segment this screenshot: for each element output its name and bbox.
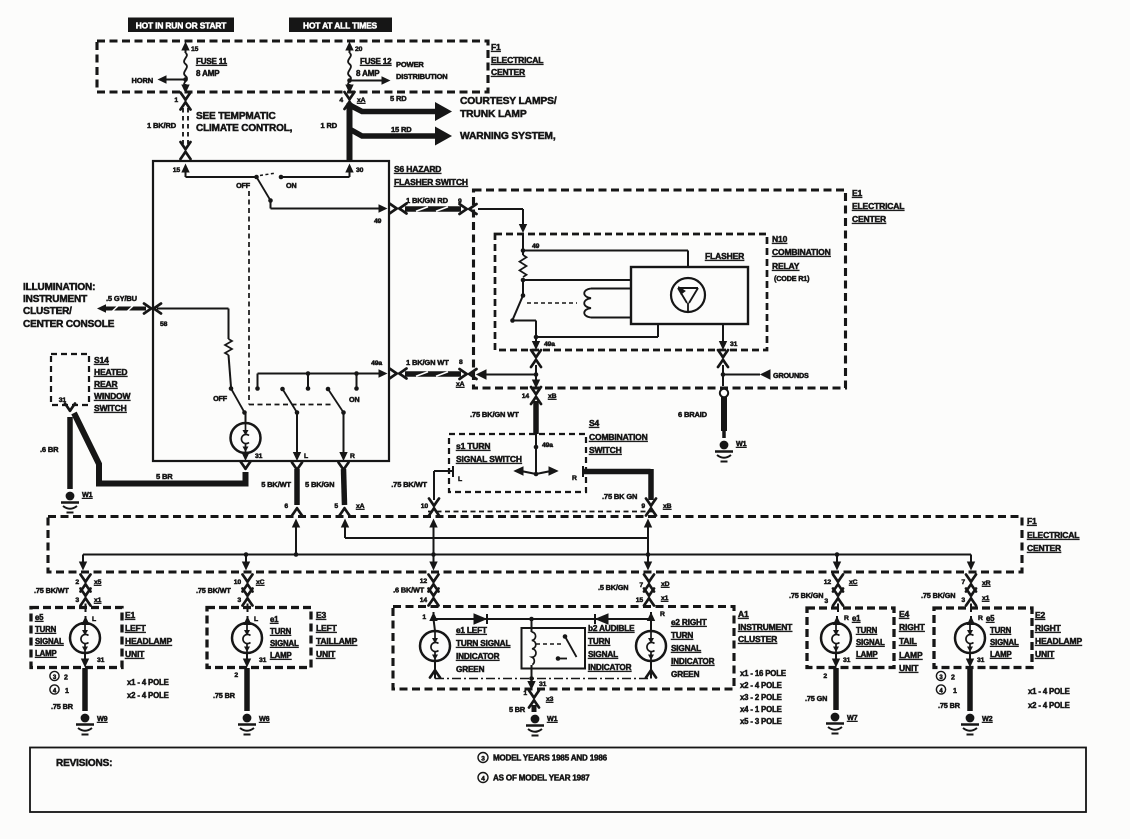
svg-text:2: 2 bbox=[234, 672, 238, 679]
S6 lamp terminal 31 exit arrow bbox=[241, 452, 262, 461]
wire to HORN with left arrow bbox=[132, 75, 188, 85]
svg-text:2: 2 bbox=[75, 579, 79, 586]
rail stub to right turn contact bbox=[354, 371, 359, 391]
svg-text:GREEN: GREEN bbox=[671, 670, 700, 679]
svg-text:R: R bbox=[350, 453, 355, 460]
label e1 turn signal lamp taillamp bbox=[270, 615, 299, 660]
svg-text:SIGNAL: SIGNAL bbox=[671, 644, 701, 653]
fuse F11 output arrow and pin 1 bbox=[174, 84, 189, 104]
svg-text:31: 31 bbox=[255, 453, 263, 460]
wire .75 GN right taillamp ground pin 2 bbox=[805, 668, 836, 710]
svg-text:5: 5 bbox=[334, 503, 338, 510]
svg-text:SEE TEMPMATIC: SEE TEMPMATIC bbox=[196, 111, 276, 122]
svg-text:W6: W6 bbox=[259, 714, 270, 723]
revisions box bbox=[30, 748, 1086, 813]
svg-text:12: 12 bbox=[420, 578, 428, 585]
connector pin 9 at E1 bbox=[460, 204, 477, 214]
connector at S6 terminal 49 bbox=[390, 204, 407, 214]
label E1 left headlamp unit bbox=[125, 610, 172, 659]
fuse F12 pin 20 entry arrow bbox=[345, 42, 362, 54]
svg-text:.75 BK/GN: .75 BK/GN bbox=[789, 591, 823, 600]
N10 terminal 49a exit arrow bbox=[532, 337, 555, 350]
label S4 combination switch bbox=[589, 418, 648, 455]
svg-text:CLUSTER/: CLUSTER/ bbox=[23, 306, 72, 317]
svg-text:.75 BR: .75 BR bbox=[938, 701, 961, 710]
F1 electrical center bus dashed enclosure bbox=[48, 517, 1022, 573]
svg-text:REAR: REAR bbox=[94, 379, 118, 389]
s1 wiper arms with arrows bbox=[515, 467, 558, 475]
wire resistor to flasher left input bbox=[521, 278, 630, 283]
flasher transistor bbox=[671, 278, 705, 312]
svg-text:.75 BK/GN WT: .75 BK/GN WT bbox=[470, 410, 519, 419]
svg-text:xR: xR bbox=[982, 580, 991, 587]
svg-text:14: 14 bbox=[522, 393, 530, 400]
svg-text:xD: xD bbox=[661, 581, 670, 588]
svg-text:TAIL: TAIL bbox=[899, 636, 917, 646]
svg-text:AS OF MODEL YEAR 1987: AS OF MODEL YEAR 1987 bbox=[493, 774, 590, 783]
A1 right entry node R bbox=[649, 617, 654, 622]
svg-text:HEADLAMP: HEADLAMP bbox=[125, 636, 172, 646]
svg-text:W2: W2 bbox=[982, 714, 993, 723]
N10 series resistor bbox=[520, 255, 527, 277]
svg-text:REVISIONS:: REVISIONS: bbox=[56, 758, 112, 769]
svg-text:31: 31 bbox=[539, 681, 547, 688]
svg-text:1: 1 bbox=[174, 97, 178, 104]
svg-text:31: 31 bbox=[843, 657, 851, 664]
wire 5 BR lamp ground run bbox=[74, 413, 246, 484]
svg-text:LEFT: LEFT bbox=[316, 623, 338, 633]
A1 right entry arrow R bbox=[647, 611, 665, 621]
connector below N10 on 31 bbox=[718, 350, 728, 367]
pole note x1 x2 4 pole left headlamp bbox=[127, 678, 169, 700]
hazard switch mechanical linkage dashed bbox=[249, 191, 333, 405]
svg-text:TURN: TURN bbox=[990, 626, 1012, 635]
S6 pin 30 entry arrow bbox=[345, 164, 363, 178]
svg-text:5 BR: 5 BR bbox=[509, 705, 526, 714]
ground braid wire 6 BRAID bbox=[678, 397, 724, 438]
svg-text:MODEL YEARS 1985 AND 1986: MODEL YEARS 1985 AND 1986 bbox=[493, 754, 608, 763]
connector 10 on left output bbox=[429, 499, 439, 516]
svg-text:CENTER: CENTER bbox=[1027, 543, 1061, 553]
svg-text:5 RD: 5 RD bbox=[390, 94, 407, 103]
A1 instrument cluster dashed enclosure bbox=[393, 607, 734, 690]
svg-text:.75 BK/WT: .75 BK/WT bbox=[391, 480, 427, 489]
label E2 right headlamp unit bbox=[1035, 610, 1082, 659]
S6 terminal 31 connector bbox=[241, 462, 251, 469]
left turn output wire L bbox=[293, 413, 308, 462]
svg-text:.6 BK/WT: .6 BK/WT bbox=[393, 586, 425, 595]
svg-text:R: R bbox=[572, 475, 577, 482]
svg-text:INSTRUMENT: INSTRUMENT bbox=[738, 622, 793, 632]
svg-text:20: 20 bbox=[355, 46, 363, 53]
svg-text:ELECTRICAL: ELECTRICAL bbox=[491, 55, 543, 65]
svg-text:GROUNDS: GROUNDS bbox=[773, 371, 809, 380]
svg-text:15 RD: 15 RD bbox=[391, 125, 412, 134]
svg-text:2: 2 bbox=[64, 675, 68, 682]
label N10 combination relay code R1 bbox=[772, 234, 831, 283]
svg-text:HORN: HORN bbox=[132, 76, 153, 85]
hazard lamp OFF contact and arm bbox=[213, 386, 247, 415]
svg-text:TURN: TURN bbox=[270, 627, 292, 636]
svg-text:CLUSTER: CLUSTER bbox=[738, 634, 777, 644]
svg-text:E1: E1 bbox=[125, 610, 136, 620]
svg-text:x1 - 4 POLE: x1 - 4 POLE bbox=[1028, 687, 1070, 696]
S6 internal 49a rail bbox=[258, 360, 388, 378]
svg-text:SWITCH: SWITCH bbox=[94, 403, 127, 413]
svg-text:5 BK/GN: 5 BK/GN bbox=[305, 480, 334, 489]
svg-text:LAMP: LAMP bbox=[899, 650, 923, 660]
connector 12 xC 3 to right taillamp bbox=[789, 575, 858, 606]
svg-text:E3: E3 bbox=[316, 610, 327, 620]
left taillamp turn signal lamp e1 bbox=[232, 604, 267, 668]
svg-text:49a: 49a bbox=[371, 360, 382, 367]
svg-text:3: 3 bbox=[237, 597, 241, 604]
left headlamp turn signal lamp e5 bbox=[70, 604, 105, 668]
wire flasher bottom to node 49a bbox=[536, 325, 658, 338]
label e5 turn signal lamp bbox=[35, 613, 64, 658]
left turn switch contact and arm bbox=[280, 387, 299, 415]
svg-text:x4 - 1 POLE: x4 - 1 POLE bbox=[740, 705, 782, 714]
bus rail upper segment bbox=[345, 537, 648, 539]
right turn indicator lamp e2 green bbox=[636, 619, 666, 679]
E2 right headlamp unit dashed enclosure bbox=[934, 608, 1032, 668]
svg-text:2: 2 bbox=[951, 675, 955, 682]
right taillamp turn signal lamp e1 bbox=[821, 604, 851, 668]
ground W7 bbox=[826, 713, 858, 734]
svg-text:8: 8 bbox=[459, 359, 463, 366]
pole note A1 connectors bbox=[740, 669, 786, 726]
svg-text:x1 - 4 POLE: x1 - 4 POLE bbox=[127, 678, 169, 687]
svg-text:e5: e5 bbox=[986, 614, 995, 623]
svg-text:CLIMATE CONTROL,: CLIMATE CONTROL, bbox=[196, 123, 293, 134]
wire .75 BR left headlamp ground bbox=[51, 668, 85, 711]
S6 pin 15 entry arrow bbox=[173, 164, 190, 178]
branch wire 5 RD to courtesy lamps trunk lamp bbox=[350, 94, 557, 121]
connector pin 1 below fuse 11 bbox=[181, 93, 191, 110]
rail stub to left turn contact bbox=[306, 371, 311, 391]
bus entry and drop connector 10 to A1 bbox=[429, 519, 437, 571]
connector 10 xC 3 to left taillamp bbox=[196, 575, 265, 606]
label E4 right tail lamp unit bbox=[899, 609, 926, 673]
label E1 electrical center bbox=[852, 188, 904, 224]
connector 12 14 to instrument cluster bbox=[393, 575, 438, 606]
svg-text:ON: ON bbox=[349, 395, 359, 404]
connector 9 xB on right output bbox=[646, 499, 672, 516]
svg-text:OFF: OFF bbox=[236, 181, 251, 190]
N10 terminal 31 exit arrow bbox=[719, 325, 738, 351]
svg-text:INDICATOR: INDICATOR bbox=[671, 657, 715, 666]
wire .75 BK GN from R output thick bbox=[583, 469, 651, 510]
svg-text:.6 BR: .6 BR bbox=[40, 445, 59, 454]
bus right end drop to xR connector bbox=[967, 555, 975, 571]
svg-text:DISTRIBUTION: DISTRIBUTION bbox=[396, 72, 448, 81]
svg-text:FLASHER: FLASHER bbox=[705, 251, 744, 261]
svg-text:.75 BR: .75 BR bbox=[51, 702, 74, 711]
svg-text:UNIT: UNIT bbox=[1035, 649, 1055, 659]
svg-text:FLASHER SWITCH: FLASHER SWITCH bbox=[394, 177, 468, 187]
svg-text:3: 3 bbox=[824, 598, 828, 605]
svg-text:W1: W1 bbox=[547, 714, 558, 723]
svg-text:INDICATOR: INDICATOR bbox=[456, 652, 500, 661]
svg-text:.75 BK/GN: .75 BK/GN bbox=[921, 591, 955, 600]
fuse F12 FUSE 12 8 AMP bbox=[348, 53, 392, 86]
svg-text:HOT IN RUN OR START: HOT IN RUN OR START bbox=[136, 21, 228, 31]
fuse box F1 electrical center top dashed enclosure bbox=[97, 41, 488, 92]
svg-text:COMBINATION: COMBINATION bbox=[772, 247, 831, 257]
svg-text:F1: F1 bbox=[491, 42, 501, 52]
svg-text:e2 RIGHT: e2 RIGHT bbox=[671, 618, 707, 627]
svg-text:ELECTRICAL: ELECTRICAL bbox=[852, 201, 904, 211]
svg-text:W9: W9 bbox=[97, 714, 108, 723]
power feed header HOT AT ALL TIMES bbox=[289, 18, 392, 33]
in-line connector open circle on ground braid bbox=[720, 389, 728, 397]
svg-text:x2 - 4 POLE: x2 - 4 POLE bbox=[127, 691, 169, 700]
N10 node 49 bbox=[521, 234, 540, 255]
left turn indicator lamp e1 green bbox=[420, 619, 450, 679]
audible turn signal relay box bbox=[522, 628, 586, 669]
svg-text:R: R bbox=[978, 615, 983, 622]
ground W6 bbox=[238, 714, 270, 735]
bus entry from connector 5 xA bbox=[341, 519, 349, 539]
svg-text:1 BK/RD: 1 BK/RD bbox=[147, 121, 177, 130]
svg-text:1: 1 bbox=[65, 688, 69, 695]
right headlamp turn signal lamp e5 bbox=[955, 604, 985, 668]
svg-text:OFF: OFF bbox=[213, 394, 228, 403]
svg-text:49a: 49a bbox=[544, 341, 555, 348]
label e5 turn signal lamp right headlamp bbox=[986, 614, 1019, 659]
svg-text:7: 7 bbox=[639, 582, 643, 589]
svg-text:5 BR: 5 BR bbox=[156, 472, 173, 481]
svg-text:xB: xB bbox=[548, 393, 557, 400]
svg-text:x1: x1 bbox=[661, 595, 669, 602]
illumination wire .5 GY/BU with left arrow bbox=[97, 294, 146, 313]
wire hazard contact to terminal 49 bbox=[271, 201, 388, 226]
svg-text:POWER: POWER bbox=[396, 60, 424, 69]
bus rail lower bbox=[83, 554, 971, 556]
wire .75 BK/WT from L output bbox=[391, 480, 428, 510]
svg-text:s1 TURN: s1 TURN bbox=[456, 441, 490, 451]
label s1 turn signal switch bbox=[456, 441, 522, 464]
svg-text:COURTESY LAMPS/: COURTESY LAMPS/ bbox=[460, 96, 557, 107]
s1 right contact R bbox=[572, 466, 583, 482]
wire .75 BK/GN WT to S4 bbox=[470, 401, 536, 434]
svg-text:9: 9 bbox=[641, 503, 645, 510]
svg-text:.75 BR: .75 BR bbox=[213, 691, 236, 700]
wire S6 internal top rail bbox=[186, 176, 350, 178]
S6 pin 58 connector bbox=[144, 304, 168, 329]
revision note 4 as of model year 1987 bbox=[478, 773, 590, 783]
svg-text:COMBINATION: COMBINATION bbox=[589, 432, 648, 442]
svg-text:15: 15 bbox=[636, 597, 644, 604]
svg-text:.75 BK/WT: .75 BK/WT bbox=[34, 586, 69, 595]
wire 1 BK/GN WT pin 8 xA bbox=[405, 358, 465, 388]
svg-text:3: 3 bbox=[481, 756, 485, 763]
power feed header HOT IN RUN OR START bbox=[128, 18, 234, 33]
S6 R output connector and wire to bus bbox=[305, 463, 365, 516]
svg-text:SIGNAL: SIGNAL bbox=[588, 650, 618, 659]
svg-text:31: 31 bbox=[97, 657, 105, 664]
svg-text:x2 - 4 POLE: x2 - 4 POLE bbox=[1028, 701, 1070, 710]
connector 14 xB below E1 bbox=[522, 387, 557, 404]
wire to POWER DISTRIBUTION with right arrow bbox=[347, 60, 447, 85]
svg-text:GREEN: GREEN bbox=[456, 665, 485, 674]
fuse F11 FUSE 11 8 AMP bbox=[184, 53, 228, 86]
bus entry and drop connector 9 to xD bbox=[644, 519, 652, 571]
svg-text:SIGNAL: SIGNAL bbox=[856, 638, 885, 647]
svg-text:xC: xC bbox=[256, 579, 265, 586]
wire to other grounds with left arrow bbox=[723, 370, 809, 380]
fuse F11 pin 15 entry arrow bbox=[181, 42, 198, 54]
svg-text:UNIT: UNIT bbox=[125, 649, 145, 659]
S6 L output connector and wire to bus bbox=[261, 463, 302, 516]
svg-text:W1: W1 bbox=[736, 439, 747, 448]
ground W1 below A1 bbox=[526, 714, 558, 736]
svg-text:S14: S14 bbox=[94, 355, 109, 365]
A1 internal feed rail bbox=[434, 618, 652, 620]
revision callouts 3-2 4-1 right headlamp bbox=[936, 671, 957, 695]
N10 relay coil bbox=[584, 289, 631, 318]
svg-text:8 AMP: 8 AMP bbox=[196, 69, 220, 78]
wire 5 BR instrument cluster ground bbox=[509, 705, 534, 714]
svg-text:W7: W7 bbox=[847, 713, 858, 722]
svg-text:R: R bbox=[844, 615, 849, 622]
svg-text:xC: xC bbox=[849, 579, 858, 586]
label S6 hazard flasher switch bbox=[394, 164, 468, 187]
svg-text:10: 10 bbox=[234, 579, 242, 586]
svg-text:S6 HAZARD: S6 HAZARD bbox=[394, 164, 441, 174]
svg-text:INDICATOR: INDICATOR bbox=[588, 663, 632, 672]
wire 1 RD thick feed bbox=[321, 103, 350, 161]
label S14 heated rear window switch bbox=[94, 355, 132, 413]
ground W9 bbox=[76, 714, 108, 735]
svg-text:1: 1 bbox=[422, 614, 426, 621]
svg-text:N10: N10 bbox=[772, 234, 788, 244]
svg-text:S4: S4 bbox=[589, 418, 600, 428]
svg-text:FUSE 11: FUSE 11 bbox=[196, 57, 228, 66]
svg-text:e1 LEFT: e1 LEFT bbox=[456, 626, 487, 635]
wire 31 to grounds junction bbox=[721, 365, 726, 386]
svg-text:4: 4 bbox=[481, 776, 485, 783]
A1 left entry pin 1 bbox=[422, 612, 437, 621]
label A1 instrument cluster bbox=[738, 609, 793, 644]
svg-text:.5 BK/GN: .5 BK/GN bbox=[598, 583, 628, 592]
connector 2 x5 3 x1 to left headlamp bbox=[34, 575, 102, 606]
svg-text:FUSE 12: FUSE 12 bbox=[360, 57, 392, 66]
junction to audible relay bbox=[529, 617, 534, 622]
svg-text:SWITCH: SWITCH bbox=[589, 445, 622, 455]
svg-text:6: 6 bbox=[284, 503, 288, 510]
wire pin 58 to lamp resistor bbox=[157, 309, 229, 340]
svg-text:E2: E2 bbox=[1035, 610, 1046, 620]
label REVISIONS bbox=[56, 758, 112, 769]
svg-text:ELECTRICAL: ELECTRICAL bbox=[1027, 530, 1079, 540]
svg-text:xA: xA bbox=[356, 503, 365, 510]
svg-text:TRUNK LAMP: TRUNK LAMP bbox=[460, 109, 527, 120]
bus drop to connector 10 xC bbox=[242, 552, 250, 570]
bus left end drop to xS connector bbox=[79, 555, 87, 571]
S14 heated rear window switch dashed enclosure bbox=[51, 354, 89, 405]
ground W1 under E1 bbox=[715, 439, 747, 462]
wire 1 BK/GN RD pin 9 bbox=[405, 196, 462, 211]
svg-text:RIGHT: RIGHT bbox=[1035, 623, 1062, 633]
svg-text:5 BK/WT: 5 BK/WT bbox=[261, 480, 291, 489]
wire .75 BR left taillamp ground pin 2 bbox=[213, 668, 247, 711]
flasher unit box bbox=[631, 251, 748, 324]
S6 hazard flasher switch enclosure bbox=[153, 161, 389, 461]
svg-text:L: L bbox=[92, 616, 96, 623]
connector below N10 on 49a bbox=[531, 350, 541, 367]
A1 internal ground rail dash-dot bbox=[435, 678, 651, 680]
fuse F12 output arrow and pin 4 bbox=[339, 84, 353, 104]
svg-text:RIGHT: RIGHT bbox=[899, 622, 926, 632]
svg-text:31: 31 bbox=[977, 657, 985, 664]
svg-text:TAILLAMP: TAILLAMP bbox=[316, 636, 358, 646]
note SEE TEMPMATIC CLIMATE CONTROL bbox=[196, 111, 293, 134]
svg-text:.75 BK GN: .75 BK GN bbox=[602, 492, 637, 501]
bus entry from connector 6 bbox=[292, 519, 300, 557]
svg-text:A1: A1 bbox=[738, 609, 749, 619]
svg-text:2: 2 bbox=[823, 673, 827, 680]
svg-text:WINDOW: WINDOW bbox=[94, 391, 132, 401]
svg-text:x3 - 2 POLE: x3 - 2 POLE bbox=[740, 693, 782, 702]
wire .75 BR right headlamp ground bbox=[938, 668, 970, 711]
svg-text:12: 12 bbox=[824, 579, 832, 586]
label F1 electrical center top bbox=[491, 42, 543, 77]
svg-text:.5 GY/BU: .5 GY/BU bbox=[106, 294, 137, 303]
wire resistor to OFF contact bbox=[229, 355, 232, 387]
svg-text:58: 58 bbox=[160, 321, 168, 328]
label E3 left taillamp unit bbox=[316, 610, 358, 659]
audible relay dashed link and contact bbox=[536, 634, 577, 661]
svg-text:UNIT: UNIT bbox=[899, 663, 919, 673]
svg-text:LEFT: LEFT bbox=[125, 623, 147, 633]
svg-text:xB: xB bbox=[663, 503, 672, 510]
svg-text:E4: E4 bbox=[899, 609, 910, 619]
svg-text:x3: x3 bbox=[546, 696, 554, 703]
N10 relay switch mechanical dashed link bbox=[527, 302, 577, 304]
svg-text:31: 31 bbox=[259, 657, 267, 664]
N10 relay switch arm and contact bbox=[513, 280, 526, 320]
svg-text:10: 10 bbox=[421, 503, 429, 510]
svg-text:WARNING SYSTEM,: WARNING SYSTEM, bbox=[460, 131, 556, 142]
svg-text:CENTER: CENTER bbox=[491, 67, 525, 77]
svg-text:SIGNAL SWITCH: SIGNAL SWITCH bbox=[456, 454, 522, 464]
svg-text:LAMP: LAMP bbox=[270, 651, 292, 660]
svg-text:R: R bbox=[660, 611, 665, 618]
svg-text:x2 - 4 POLE: x2 - 4 POLE bbox=[740, 681, 782, 690]
svg-text:1 BK/GN RD: 1 BK/GN RD bbox=[406, 196, 449, 205]
connector pin 4 xA below fuse 12 bbox=[345, 92, 366, 109]
S6 illumination resistor bbox=[225, 339, 232, 355]
svg-text:HEADLAMP: HEADLAMP bbox=[1035, 636, 1082, 646]
svg-text:(CODE R1): (CODE R1) bbox=[774, 274, 810, 283]
label e1 turn signal lamp right tail bbox=[852, 614, 885, 659]
connector 7 15 xD x1 to A1 right bbox=[598, 575, 670, 606]
rail stub to hazard ON contact bbox=[255, 374, 260, 391]
svg-text:49: 49 bbox=[532, 243, 540, 250]
svg-text:LAMP: LAMP bbox=[990, 650, 1012, 659]
branch wire 15 RD to warning system bbox=[350, 125, 556, 146]
E1 left headlamp unit dashed enclosure bbox=[31, 608, 122, 668]
wire node 49 to flasher unit bbox=[523, 251, 688, 267]
svg-text:15: 15 bbox=[173, 167, 181, 174]
svg-text:49: 49 bbox=[374, 218, 382, 225]
svg-text:RELAY: RELAY bbox=[772, 261, 800, 271]
svg-text:x1: x1 bbox=[982, 595, 990, 602]
svg-text:e1: e1 bbox=[270, 615, 279, 624]
wire .6 BR to ground W1 bbox=[40, 417, 70, 489]
svg-text:xA: xA bbox=[357, 97, 366, 104]
